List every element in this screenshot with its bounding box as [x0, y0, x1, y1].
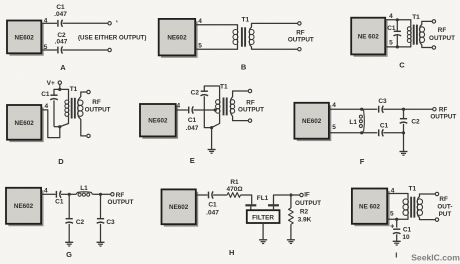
- wire secondary top to terminal (I): [418, 194, 436, 199]
- output terminal top (C): [432, 20, 435, 23]
- junction top (D): [58, 88, 61, 91]
- wire C2 branch top (E): [204, 86, 219, 100]
- wire pin5 to T1 (I): [387, 215, 408, 219]
- label L1 (G): [80, 185, 88, 192]
- wire C3 to out junction (F): [383, 108, 403, 110]
- junction C2 (G): [68, 193, 71, 196]
- wire secondary bottom to terminal (I): [418, 215, 436, 219]
- wire R2 to ground (H): [290, 224, 292, 240]
- output terminal bottom (C): [432, 46, 435, 49]
- wire C2 stubs (F): [403, 109, 405, 133]
- output terminal top (A): [108, 22, 111, 25]
- bottom wire pin5 (F): [329, 132, 377, 134]
- capacitor C1 (C): [394, 31, 402, 36]
- wire pin4 to T1 (B): [195, 25, 237, 30]
- pin 4 label (B): [198, 18, 202, 25]
- wire C1 to junction (G): [61, 193, 69, 195]
- capacitor C3 (G): [97, 219, 105, 224]
- tick mark (A): [116, 21, 119, 23]
- capacitor C1 electrolytic (I): [393, 229, 401, 234]
- wire pin4 to T1 (I): [387, 194, 408, 199]
- wire C1 top (C): [396, 20, 398, 32]
- capacitor C1 (G): [56, 191, 61, 198]
- wire junction to terminal (H): [291, 194, 300, 196]
- panel label H: [229, 248, 234, 257]
- note USE EITHER OUTPUT (A): [78, 34, 146, 41]
- wire secondary bottom to terminal (D): [78, 116, 87, 136]
- junction C1 (I): [395, 218, 398, 221]
- pin 5 label (I): [390, 211, 394, 218]
- wire pin to C1 (H): [196, 194, 208, 196]
- wire to output terminal (F): [404, 108, 433, 110]
- output terminal bottom (D): [87, 134, 90, 137]
- label RF (G): [116, 192, 125, 199]
- junction L1 bottom (F): [360, 131, 363, 134]
- wire C1 to ground (I): [396, 234, 398, 241]
- label 3.9K (H): [298, 217, 312, 224]
- label .047 (E): [186, 125, 199, 132]
- wire primary bottom to junction (D): [60, 116, 69, 126]
- IC U1 (NE602, circuit A): [7, 21, 44, 56]
- label C2 (A): [57, 32, 66, 39]
- label C3 (G): [106, 219, 115, 226]
- label RF (E): [246, 99, 255, 106]
- wire L1 to junction (G): [93, 193, 101, 195]
- wire C2 to ground (G): [68, 224, 70, 243]
- ground (F): [400, 152, 408, 156]
- filter left stub (H): [250, 205, 252, 210]
- label OUTPUT (E): [238, 107, 264, 114]
- wire C3 top (G): [100, 194, 102, 218]
- top rail (D): [54, 89, 69, 100]
- output terminal (G): [111, 193, 114, 196]
- label C2 (G): [76, 219, 85, 226]
- wire C2 to output (A): [63, 49, 108, 51]
- wire C2 bottom to ground junction (E): [204, 96, 211, 127]
- capacitor C2 (F): [400, 119, 408, 124]
- wire FL1 to ground (H): [262, 223, 264, 240]
- bottom rail junction (D): [58, 125, 61, 128]
- pin 4 label (F): [332, 102, 336, 109]
- watermark SeekIC.com: [411, 253, 460, 263]
- output terminal top (B): [298, 22, 301, 25]
- junction pin4/C1 (C): [396, 18, 399, 21]
- label OUTPUT (C): [429, 35, 455, 42]
- label OUTPUT (D): [85, 106, 111, 113]
- junction pin5/C1 (C): [396, 45, 399, 48]
- wire C1 to junction (F): [383, 132, 403, 134]
- output terminal bottom (E): [248, 119, 251, 122]
- output terminal top (I): [435, 192, 438, 195]
- wire bottom junction left (D): [54, 126, 60, 128]
- capacitor C2 (E): [201, 91, 209, 96]
- capacitor C2 (G): [65, 219, 73, 224]
- wire pin4 to C1 (A): [41, 22, 57, 24]
- output terminal top (E): [248, 89, 251, 92]
- transformer T1 (B): [233, 27, 254, 46]
- capacitor C1 (A): [58, 20, 63, 27]
- label T1 (B): [242, 17, 250, 24]
- filter FL1 left lead (H): [245, 204, 256, 206]
- inductor L1 (G): [76, 192, 92, 196]
- label OUT- (I): [437, 203, 452, 210]
- filter right stub (H): [273, 205, 275, 210]
- label L1 (F): [349, 119, 357, 126]
- ground FL1 (H): [259, 240, 267, 244]
- capacitor C3 (F): [379, 106, 384, 113]
- filter FL1 box (H): [247, 210, 280, 223]
- inductor L1 (F): [359, 109, 364, 133]
- label IF (H): [304, 192, 310, 199]
- pin 4 label (A): [44, 17, 48, 24]
- tap junction (E): [214, 108, 217, 111]
- IC U1 (NE602, circuit I): [352, 189, 390, 227]
- label FILTER (H): [252, 214, 274, 221]
- wire secondary top to terminal (E): [231, 91, 249, 100]
- label C3 (F): [378, 98, 387, 105]
- wire FL1 to output (H): [274, 195, 290, 205]
- label C1 (H): [208, 202, 217, 209]
- label OUTPUT (H): [295, 200, 321, 207]
- capacitor C1 (F): [379, 129, 384, 136]
- pin 5 label (B): [198, 43, 202, 50]
- output terminal (F): [433, 108, 436, 111]
- IC U1 (NE602, circuit E): [140, 104, 178, 139]
- label RF (F): [439, 107, 448, 114]
- label T1 (I): [409, 186, 417, 193]
- label R2 (H): [300, 209, 309, 216]
- label FL1 (H): [257, 195, 269, 202]
- panel label D: [58, 157, 64, 166]
- label .047 of C2 (A): [55, 39, 68, 46]
- IC U1 (NE602, circuit F): [294, 103, 331, 141]
- wire pin5 to T1 (B): [195, 45, 237, 50]
- transformer T1 primary (D): [65, 98, 83, 119]
- wire C1 to R1 (H): [213, 194, 227, 196]
- panel label E: [190, 156, 195, 165]
- pin 4 label (D): [44, 103, 48, 110]
- wire secondary top to terminal (D): [78, 92, 87, 100]
- wire pin4 to C1 (E): [176, 109, 188, 111]
- panel label F: [360, 157, 365, 166]
- wire T1 secondary bottom to terminal (B): [250, 45, 298, 50]
- transformer T1 (I): [403, 197, 423, 218]
- capacitor C2 (A): [58, 46, 63, 53]
- label C1 (I): [403, 227, 412, 234]
- label OUTPUT (G): [108, 199, 134, 206]
- capacitor C1 (H): [209, 191, 214, 198]
- junction C3 (G): [99, 193, 102, 196]
- label C1 (D): [41, 91, 50, 98]
- label PUT (I): [439, 211, 452, 218]
- ground R2 (H): [287, 240, 295, 244]
- transformer T1 (E): [216, 98, 235, 116]
- label C1 (C): [387, 25, 396, 32]
- label C1 (E): [188, 117, 197, 124]
- wire pin5 to C2 (A): [41, 49, 57, 51]
- output terminal bottom (B): [298, 48, 301, 51]
- wire pin4 to T1 (C): [385, 20, 411, 27]
- wire to ground (E): [211, 128, 213, 150]
- output terminal bottom (I): [435, 218, 438, 221]
- wire to ground (F): [403, 133, 405, 152]
- IC U1 (NE602, circuit B): [159, 19, 198, 58]
- capacitor C1 (D): [50, 95, 58, 100]
- label C1 (A): [56, 4, 65, 11]
- label .047 of C1 (A): [54, 11, 67, 18]
- label C2 (F): [411, 119, 420, 126]
- label RF (D): [92, 99, 101, 106]
- wire C1 top (I): [396, 219, 398, 227]
- transformer T1 (C): [407, 25, 424, 45]
- wire pin5 to T1 (C): [385, 43, 411, 47]
- top wire pin4 (F): [329, 108, 377, 110]
- wire primary bottom (E): [212, 113, 220, 127]
- junction C2 bottom (F): [402, 131, 405, 134]
- label 470ohm (H): [226, 186, 242, 193]
- pin 4 label (G): [44, 187, 48, 194]
- resistor R2 (H): [289, 208, 294, 224]
- wire secondary bottom to terminal (C): [420, 43, 432, 48]
- panel label C: [399, 61, 405, 70]
- junction C2 top (F): [402, 108, 405, 111]
- wire junction to L1 (G): [69, 193, 76, 195]
- junction L1 top (F): [360, 108, 363, 111]
- capacitor C1 (E): [189, 106, 194, 113]
- wire junction to pin4 (D): [41, 110, 60, 138]
- wire secondary bottom to terminal (E): [231, 113, 249, 120]
- wire C3 to ground (G): [100, 224, 102, 243]
- pin 5 label (F): [332, 124, 336, 131]
- panel label A: [60, 63, 66, 72]
- label C2 (E): [191, 90, 200, 97]
- output terminal (H): [300, 193, 303, 196]
- label RF (I): [439, 196, 448, 203]
- wire V+ down (D): [59, 84, 61, 89]
- wire C1 bottom (C): [396, 35, 398, 47]
- label 10 (I): [402, 234, 410, 241]
- ground C2 (G): [65, 242, 73, 246]
- pin 5 label (C): [389, 39, 393, 46]
- panel label G: [66, 250, 72, 259]
- wire C1 to tap (E): [193, 109, 215, 111]
- pin 4 label (I): [391, 187, 395, 194]
- IC U1 (NE602, circuit H): [162, 189, 199, 226]
- wire pin4 to C1 (G): [41, 193, 55, 195]
- label .047 (H): [206, 210, 219, 217]
- label OUTPUT (B): [288, 36, 314, 43]
- panel label B: [241, 63, 247, 72]
- wire C2 top (G): [68, 194, 70, 218]
- label C1 (G): [55, 199, 64, 206]
- pin 5 label (A): [44, 44, 48, 51]
- label plus (I): [390, 224, 394, 231]
- resistor R1 (H): [227, 193, 240, 198]
- output terminal top (D): [87, 90, 90, 93]
- junction R2 (H): [289, 193, 292, 196]
- filter FL1 right lead (H): [268, 204, 279, 206]
- label T1 (E): [220, 83, 228, 90]
- wire R1 to FL1 left (H): [241, 195, 252, 204]
- label R1 (H): [230, 179, 239, 186]
- ground C1 (I): [393, 241, 401, 245]
- label RF (C): [438, 27, 447, 34]
- wire C1 bottom (D): [53, 100, 55, 126]
- wire T1 secondary top to terminal (B): [250, 23, 298, 29]
- IC U1 (NE602, circuit G): [6, 188, 44, 226]
- pin 4 label (E): [176, 103, 180, 110]
- wire C1 to output (A): [63, 22, 108, 24]
- label T1 (C): [412, 14, 420, 21]
- label V+ (D): [47, 80, 55, 87]
- ground C3 (G): [97, 242, 105, 246]
- wire secondary top to terminal (C): [420, 21, 432, 26]
- terminal V+ (D): [58, 81, 61, 84]
- label RF (B): [296, 30, 305, 37]
- label OUTPUT (F): [430, 114, 456, 121]
- ground junction (E): [210, 126, 213, 129]
- IC U1 (NE602, circuit D): [7, 105, 44, 142]
- wire R2 top (H): [290, 195, 292, 208]
- pin 4 label (C): [389, 13, 393, 20]
- output terminal bottom (A): [108, 48, 111, 51]
- label C1 (F): [380, 123, 389, 130]
- wire to output (G): [101, 193, 111, 195]
- ground (E): [208, 150, 216, 154]
- IC U1 (NE602, circuit C): [351, 18, 387, 57]
- panel label I: [395, 251, 397, 260]
- label T1 (D): [70, 86, 78, 93]
